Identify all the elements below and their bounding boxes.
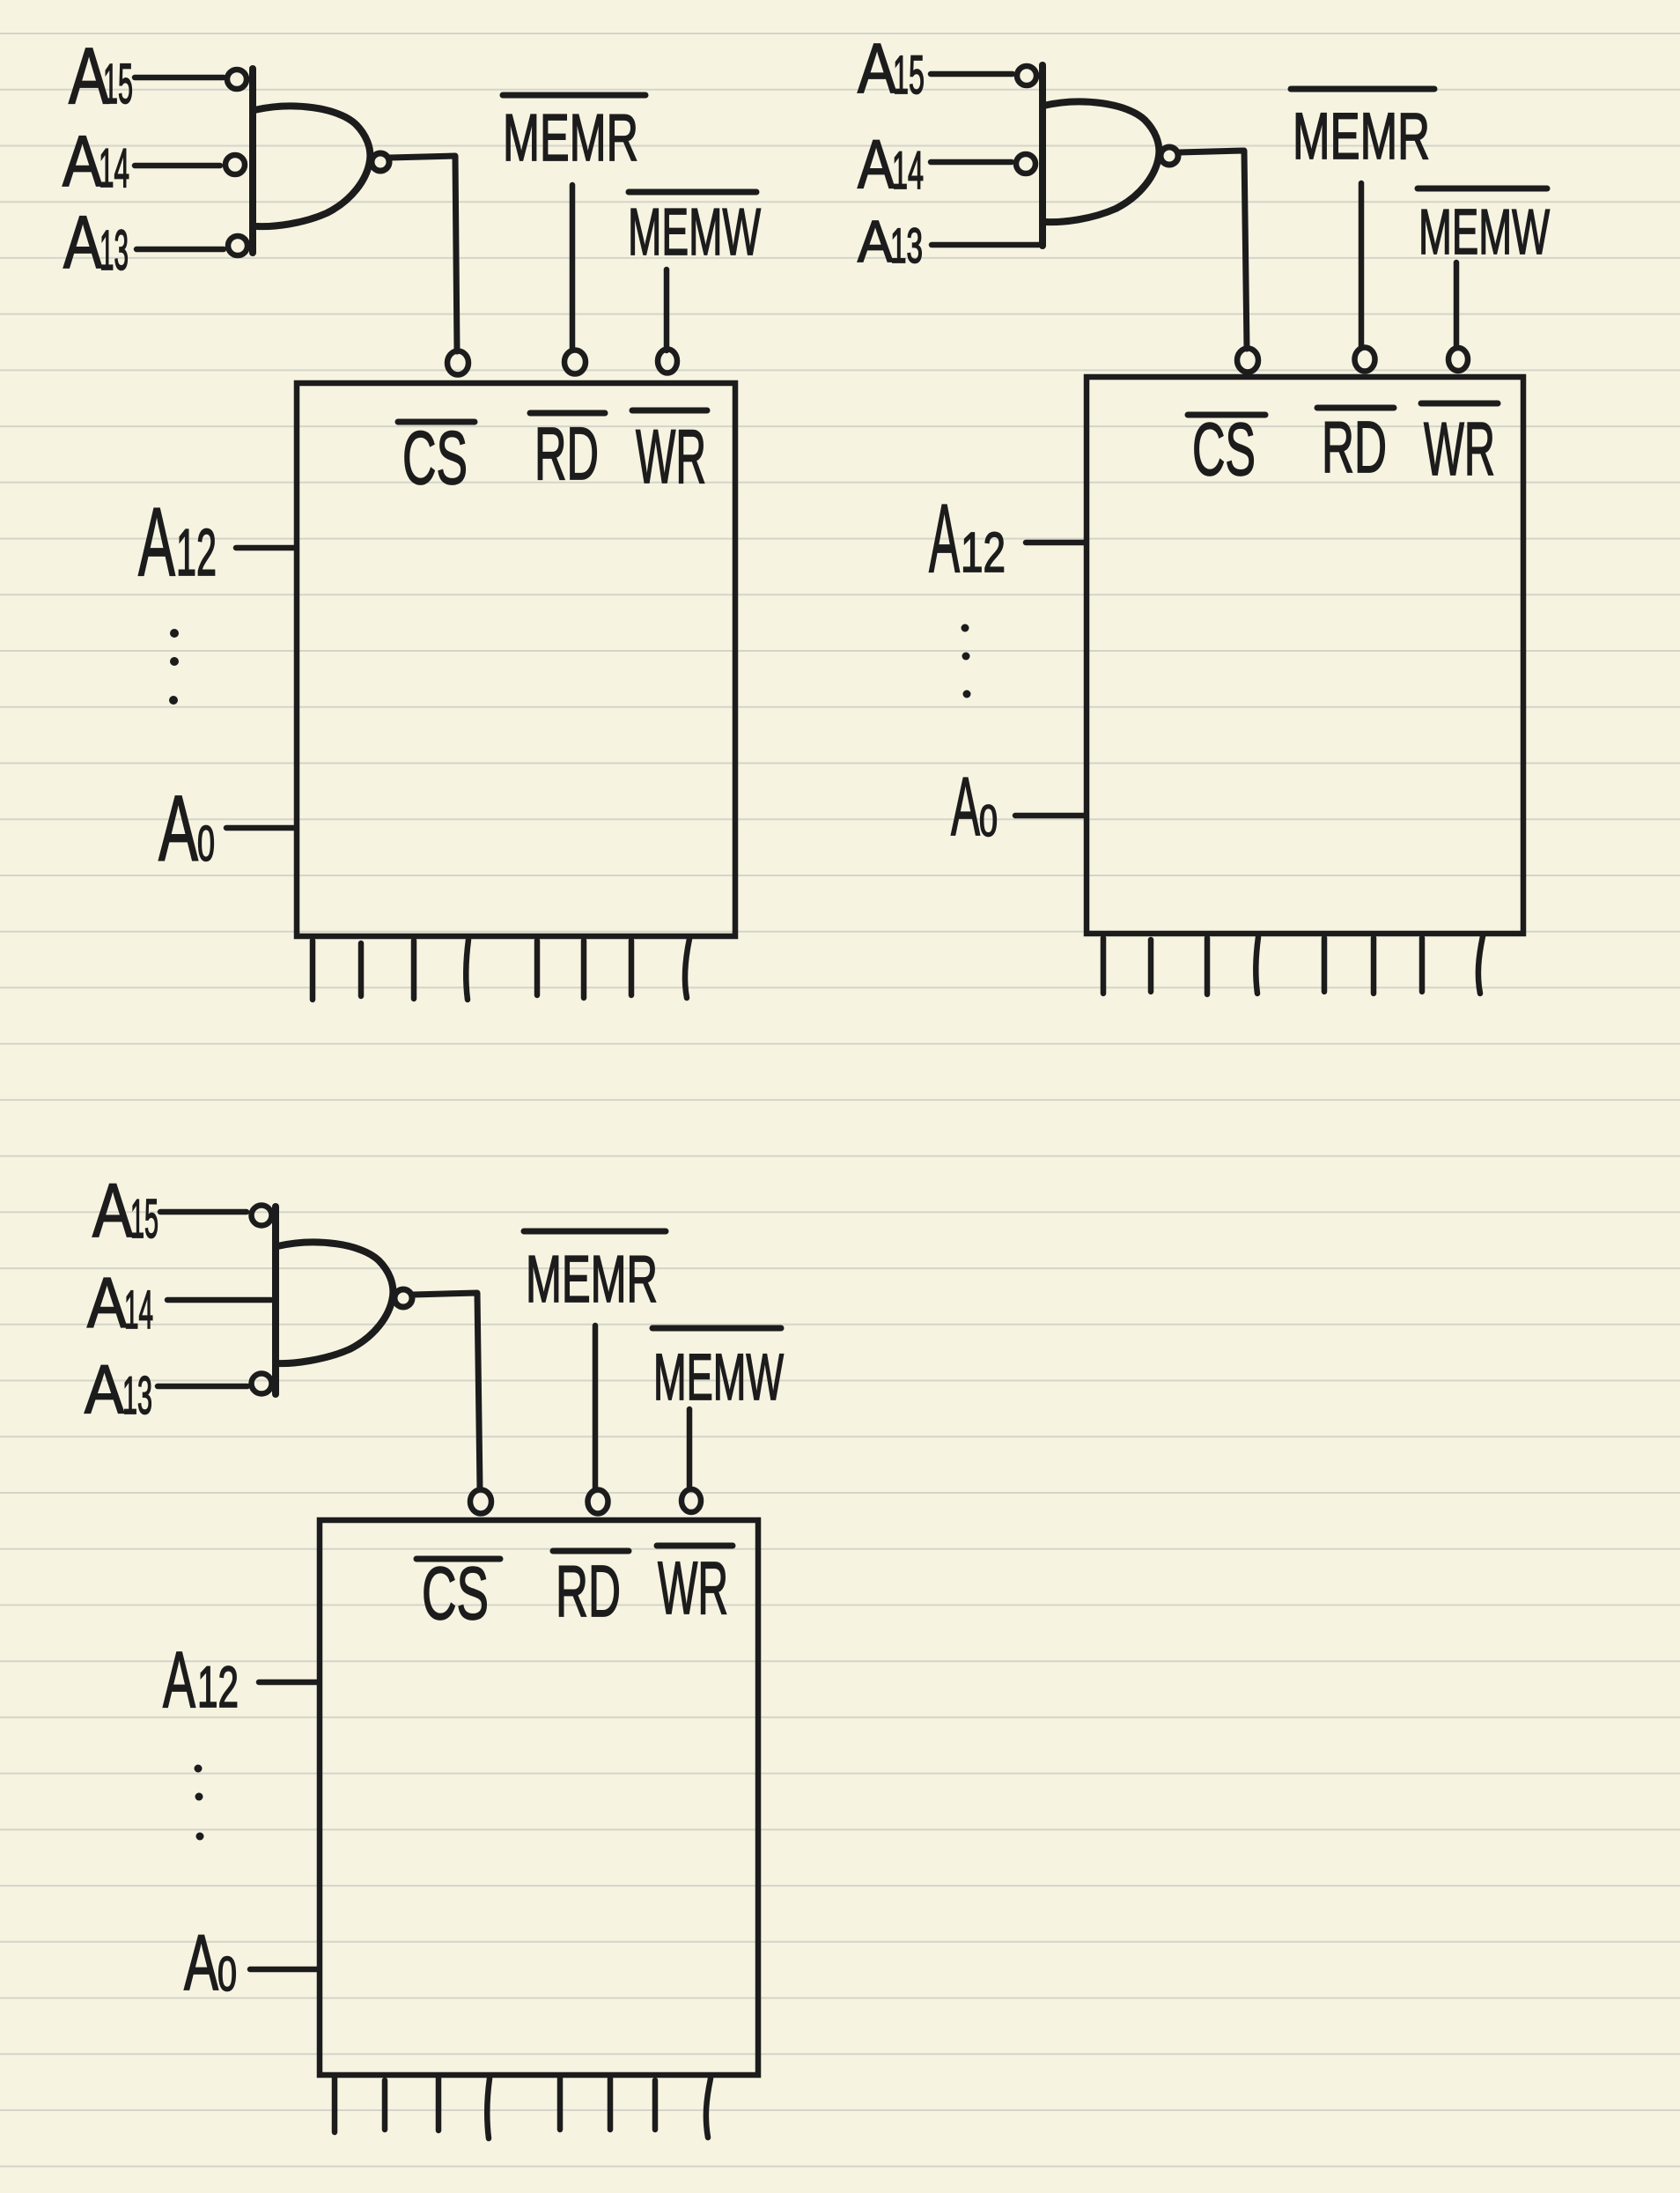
NAND gate U2 body <box>1043 65 1159 246</box>
data pin 7 (M1) <box>629 941 635 995</box>
svg-text:A: A <box>158 777 198 881</box>
data pin 2 (M1) <box>358 943 365 996</box>
inversion bubble U2 input A15 <box>1017 66 1036 85</box>
inversion bubble U2 input A14 <box>1016 154 1035 174</box>
label A13 (gate U1 input) <box>63 201 129 284</box>
svg-text:A: A <box>85 1350 124 1428</box>
svg-text:A: A <box>63 201 102 284</box>
wire MEMW to WR pin <box>664 270 670 351</box>
wire A0 to M1 <box>226 825 295 831</box>
wire MEMW to WR pin (M2) <box>1454 262 1460 346</box>
wire A13 to U1 <box>136 247 224 253</box>
svg-text:CS: CS <box>422 1552 489 1635</box>
ellipsis dots A11..A1 (M1) <box>169 629 179 705</box>
pin bubble CS (chip M1) <box>447 351 468 375</box>
wire A12 to M1 <box>236 545 295 551</box>
svg-text:CS: CS <box>1192 408 1256 491</box>
data pin 4 (M1) <box>466 940 468 1000</box>
data pin 2 (M2) <box>1148 940 1154 992</box>
overline MEMW (3) <box>652 1325 781 1332</box>
wire A15 to U2 <box>931 71 1013 78</box>
wire A15 to U1 <box>135 75 224 81</box>
svg-text:13: 13 <box>99 218 129 282</box>
label A14 (gate U1 input) <box>63 122 129 202</box>
svg-text:12: 12 <box>961 521 1006 584</box>
wire A12 to M2 <box>1026 540 1085 546</box>
overline WR (M1) <box>632 408 707 414</box>
svg-text:0: 0 <box>197 816 215 872</box>
inversion bubble U3 input A13 <box>252 1374 272 1394</box>
wire A14 to U1 <box>135 163 220 169</box>
overline WR (M3) <box>657 1543 733 1549</box>
wire A0 to M3 <box>250 1967 318 1973</box>
svg-text:WR: WR <box>636 415 706 499</box>
svg-text:RD: RD <box>1322 406 1387 488</box>
data pin 8 (M1) <box>685 939 689 998</box>
data pin 3 (M3) <box>436 2079 442 2130</box>
svg-text:12: 12 <box>176 515 217 589</box>
wire A15 to U3 <box>160 1209 247 1215</box>
label A14 (gate U3 input) <box>87 1264 153 1343</box>
wire A14 to U2 <box>931 159 1012 166</box>
svg-text:A: A <box>87 1264 127 1343</box>
wire U1 output to CS pin <box>390 156 457 351</box>
pin bubble WR (chip M2) <box>1448 348 1468 371</box>
pin bubble CS (chip M2) <box>1237 349 1258 373</box>
label A15 (gate U2 input) <box>858 29 925 107</box>
label A13 (gate U2 input) <box>858 209 923 275</box>
svg-text:A: A <box>858 29 897 107</box>
data pin 8 (M2) <box>1478 936 1483 993</box>
label A13 (gate U3 input) <box>85 1350 152 1428</box>
svg-text:14: 14 <box>892 141 924 200</box>
label A15 (gate U3 input) <box>92 1169 158 1253</box>
pin bubble RD (chip M2) <box>1355 348 1375 372</box>
data pin 4 (M3) <box>487 2079 490 2138</box>
data pin 8 (M3) <box>706 2079 711 2138</box>
data pin 3 (M2) <box>1205 938 1211 994</box>
overline MEMW (2) <box>1418 186 1547 192</box>
overline MEMR <box>503 92 645 99</box>
svg-text:0: 0 <box>979 796 998 845</box>
data pin 5 (M1) <box>534 941 541 995</box>
data pin 7 (M2) <box>1419 938 1426 992</box>
pin bubble CS (chip M3) <box>470 1490 491 1514</box>
data pin 1 (M2) <box>1101 938 1107 993</box>
svg-text:A: A <box>92 1169 134 1253</box>
svg-text:MEMW: MEMW <box>653 1340 784 1414</box>
data pin 7 (M3) <box>652 2080 659 2130</box>
svg-text:A: A <box>138 488 175 596</box>
data pin 1 (M3) <box>332 2079 338 2132</box>
label A15 (gate U1 input) <box>69 33 133 121</box>
data pin 1 (M1) <box>310 941 316 1000</box>
svg-text:A: A <box>951 760 980 853</box>
pin bubble RD (chip M3) <box>588 1490 608 1514</box>
ellipsis dots A11..A1 (M2) <box>962 624 971 698</box>
overline RD (M3) <box>553 1548 629 1554</box>
svg-text:MEMR: MEMR <box>1293 100 1430 173</box>
svg-text:13: 13 <box>122 1366 152 1425</box>
inversion bubble U1 input A14 <box>225 155 245 174</box>
overline MEMR (3) <box>524 1229 666 1235</box>
svg-text:MEMR: MEMR <box>503 100 638 174</box>
svg-text:WR: WR <box>1424 408 1495 491</box>
wire A0 to M2 <box>1015 813 1085 819</box>
wire A13 to U3 <box>158 1384 247 1390</box>
svg-text:A: A <box>184 1918 218 2006</box>
wire MEMR to RD pin (M2) <box>1359 183 1365 347</box>
label A12 (M3 address input) <box>163 1636 239 1724</box>
overline MEMR (2) <box>1291 86 1434 92</box>
NAND gate U1 body <box>253 69 370 253</box>
svg-text:RD: RD <box>534 412 599 495</box>
overline CS (M1) <box>398 419 475 425</box>
svg-text:14: 14 <box>124 1280 153 1340</box>
svg-text:15: 15 <box>103 52 133 115</box>
svg-text:15: 15 <box>893 45 925 105</box>
wire A14 to U3 (no bubble) <box>167 1297 271 1303</box>
svg-text:WR: WR <box>658 1547 728 1629</box>
svg-text:13: 13 <box>890 218 923 273</box>
svg-text:A: A <box>929 484 960 593</box>
svg-text:15: 15 <box>130 1189 158 1250</box>
wire MEMW to WR pin (M3) <box>687 1409 693 1487</box>
inversion bubble U1 input A15 <box>227 70 247 89</box>
pin bubble WR (chip M1) <box>658 350 677 373</box>
pin bubble RD (chip M1) <box>564 351 586 374</box>
overline WR (M2) <box>1421 401 1498 407</box>
overline RD (M2) <box>1317 405 1394 411</box>
wire MEMR to RD pin (M3) <box>593 1325 599 1488</box>
svg-text:MEMW: MEMW <box>1418 197 1550 268</box>
overline CS (M3) <box>416 1556 500 1562</box>
overline CS (M2) <box>1188 412 1265 418</box>
data pin 5 (M2) <box>1322 938 1328 992</box>
data pin 6 (M3) <box>608 2079 614 2130</box>
svg-text:A: A <box>858 209 893 275</box>
wire U2 output to CS pin <box>1179 151 1247 349</box>
data pin 3 (M1) <box>411 941 417 999</box>
wire U3 output to CS pin <box>413 1293 480 1488</box>
inversion bubble U3 input A15 <box>252 1206 272 1226</box>
label A12 (M1 address input) <box>138 488 217 596</box>
overline MEMW <box>629 189 756 196</box>
pin bubble WR (chip M3) <box>682 1489 701 1512</box>
svg-text:RD: RD <box>556 1550 621 1632</box>
svg-text:A: A <box>63 122 102 202</box>
inversion bubble U1 output <box>372 153 389 171</box>
svg-text:MEMW: MEMW <box>628 195 761 269</box>
svg-text:A: A <box>163 1636 195 1724</box>
svg-text:12: 12 <box>197 1654 239 1719</box>
label A0 (M1 address input) <box>158 777 215 881</box>
inversion bubble U2 output <box>1161 147 1178 165</box>
memory chip block M3 <box>320 1520 758 2075</box>
wire A13 to U2 (no bubble) <box>932 242 1039 248</box>
wire A12 to M3 <box>259 1680 318 1686</box>
inversion bubble U1 input A13 <box>228 236 247 255</box>
label A0 (M3 address input) <box>184 1918 237 2006</box>
ellipsis dots A11..A1 (M3) <box>195 1765 204 1841</box>
svg-text:0: 0 <box>217 1946 237 2001</box>
inversion bubble U3 output <box>394 1289 412 1307</box>
svg-text:A: A <box>858 125 895 203</box>
svg-text:14: 14 <box>99 138 129 199</box>
label A0 (M2 address input) <box>951 760 998 853</box>
data pin 6 (M2) <box>1371 938 1377 993</box>
data pin 5 (M3) <box>557 2079 564 2130</box>
data pin 2 (M3) <box>382 2080 388 2130</box>
wire MEMR to RD pin <box>570 185 576 350</box>
data pin 4 (M2) <box>1256 937 1258 993</box>
memory chip block M2 <box>1087 377 1523 934</box>
svg-text:MEMR: MEMR <box>526 1242 658 1316</box>
label A14 (gate U2 input) <box>858 125 924 203</box>
svg-text:CS: CS <box>402 417 468 500</box>
NAND gate U3 body <box>276 1207 393 1394</box>
label A12 (M2 address input) <box>929 484 1006 593</box>
memory chip block M1 <box>297 383 735 936</box>
overline RD (M1) <box>530 410 605 417</box>
data pin 6 (M1) <box>581 941 587 998</box>
